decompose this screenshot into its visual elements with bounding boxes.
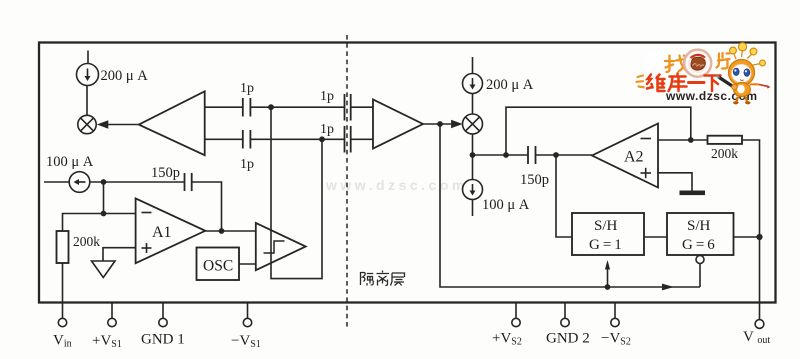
arrowhead right on control wire xyxy=(662,284,674,291)
svg-text:−VS1: −VS1 xyxy=(231,333,261,350)
node N12 junction dot xyxy=(605,284,611,290)
logo char zhao (find) xyxy=(665,56,687,73)
terminal +VS1 xyxy=(108,303,116,327)
op-amp A1 xyxy=(136,198,206,263)
svg-text:150p: 150p xyxy=(520,172,549,188)
node N11 junction dot xyxy=(756,234,762,240)
wire N4 to A1 inverting input xyxy=(104,213,136,215)
outer IC package border xyxy=(39,43,776,303)
S/H G=6 block xyxy=(667,213,734,255)
mascot legs xyxy=(737,97,748,102)
svg-text:+VS1: +VS1 xyxy=(92,333,122,350)
wire N4 left and down to resistor R1 xyxy=(63,214,104,232)
capacitor C4 1p isolation (lower) xyxy=(345,126,351,153)
logo magnifier ring xyxy=(684,50,711,77)
capacitor C5 150p xyxy=(185,173,192,191)
terminal -VS2 xyxy=(611,303,619,327)
feedback loop wire N1 down through comparator, right, up to N2 xyxy=(271,107,322,278)
op-amp right modulator receiver (points right) xyxy=(373,100,423,149)
logo speed dashes xyxy=(637,76,644,88)
mixer M1 (modulator multiplier) xyxy=(78,115,96,133)
wire R2 right and down right rail xyxy=(742,140,760,237)
svg-text:A1: A1 xyxy=(152,224,172,241)
OSC box xyxy=(197,248,240,281)
svg-text:V out: V out xyxy=(743,329,770,346)
wire bubble down to bottom control wire xyxy=(699,264,701,288)
arrow up into S/H G=1 xyxy=(605,260,610,287)
resistor R1 200k vertical xyxy=(57,231,69,263)
wire C2 to node N2 and to iso cap C4 xyxy=(250,138,344,140)
wire A2 inverting input to R2 xyxy=(658,139,708,141)
svg-text:OSC: OSC xyxy=(203,258,233,275)
current source I1 200uA (left) xyxy=(77,51,99,86)
logo white halo backdrop xyxy=(640,50,724,92)
dzsc watermark logo group xyxy=(637,43,771,105)
svg-text:200 μ A: 200 μ A xyxy=(486,77,534,93)
capacitor C2 1p (lower) xyxy=(243,130,251,149)
wire rail down to Vout xyxy=(759,237,761,320)
svg-text:1p: 1p xyxy=(240,157,254,172)
wire R1 to Vin terminal xyxy=(62,263,64,319)
node N5 junction dot xyxy=(219,228,225,234)
svg-text:Vin: Vin xyxy=(53,333,72,350)
wire I2 to node N3 to 150p cap C5 xyxy=(90,181,185,183)
svg-text:A2: A2 xyxy=(624,149,644,166)
mascot eyes xyxy=(733,68,739,76)
svg-text:1p: 1p xyxy=(320,122,334,137)
feedback rail N8 up over to A2 inverting input xyxy=(506,107,691,155)
current source I3 200uA (right) xyxy=(463,57,483,114)
node N9 junction dot xyxy=(553,152,559,158)
svg-text:−VS2: −VS2 xyxy=(601,331,631,348)
terminal +VS2 xyxy=(512,303,520,327)
mixer M2 (demodulator multiplier) xyxy=(463,114,483,134)
node N10 junction dot xyxy=(688,137,694,143)
svg-text:GND 2: GND 2 xyxy=(546,331,590,347)
mascot body xyxy=(734,83,751,97)
ground symbol GND1 (triangle) xyxy=(92,261,116,278)
wire C6 to node N9 to A2 apex xyxy=(536,154,593,156)
node N6 junction dot xyxy=(437,121,443,127)
logo magnifier fist xyxy=(691,57,705,70)
svg-text:GND 1: GND 1 xyxy=(141,332,185,348)
node N2 junction dot xyxy=(319,136,325,142)
logo char pian (chip) xyxy=(717,53,730,69)
wire A1 output to comparator xyxy=(205,230,256,232)
node N3 junction dot xyxy=(101,179,107,185)
wire A2 + input to ground bar xyxy=(658,173,692,191)
label 隔离层 (isolation layer) xyxy=(361,271,405,286)
wire upper input to C1 xyxy=(205,106,243,108)
terminal GND2 xyxy=(561,303,569,327)
svg-text:S/H: S/H xyxy=(594,218,618,234)
comparator with hysteresis xyxy=(256,223,306,270)
wire C3 to right amp xyxy=(351,106,373,108)
mascot mouth xyxy=(740,79,744,82)
terminal Vout xyxy=(755,320,764,329)
mascot pen xyxy=(719,77,735,88)
wire M2 down to node N7 xyxy=(472,134,474,155)
wire lower input to C2 xyxy=(205,138,243,140)
svg-text:150p: 150p xyxy=(151,165,180,181)
mascot head xyxy=(729,60,755,86)
capacitor C1 1p (upper) xyxy=(243,98,251,117)
wire C5 down to A1 output node N5 xyxy=(192,182,222,231)
svg-text:1p: 1p xyxy=(320,89,334,104)
svg-text:100 μ A: 100 μ A xyxy=(46,154,94,170)
op-amp A2 (points left) xyxy=(592,124,658,188)
node N4 junction dot xyxy=(101,211,107,217)
mascot face xyxy=(732,64,752,83)
svg-text:200k: 200k xyxy=(73,234,100,249)
terminal Vin xyxy=(58,318,66,326)
node N1 junction dot xyxy=(268,104,274,110)
capacitor C3 1p isolation (upper) xyxy=(345,94,351,121)
svg-text:G = 1: G = 1 xyxy=(589,237,622,253)
svg-text:1p: 1p xyxy=(240,81,254,96)
wire OSC to comparator xyxy=(239,263,256,265)
wire node N3 down to node N4 xyxy=(103,182,105,214)
wire S/H G=6 to output rail xyxy=(734,236,760,238)
current source I2 100uA (left) xyxy=(44,172,90,193)
wire I1 to mixer M1 xyxy=(86,86,88,116)
svg-text:S/H: S/H xyxy=(687,218,711,234)
capacitor C6 150p right xyxy=(528,146,536,164)
wire between S/H blocks xyxy=(644,236,667,238)
wire amp out to mixer M2 with right arrowhead xyxy=(423,120,463,128)
wire C4 to right amp xyxy=(351,138,373,140)
current source I4 100uA (right) xyxy=(463,155,483,216)
wire N6 down left rail to bottom control wire xyxy=(440,124,700,287)
logo red text wei ku yi xia xyxy=(647,74,721,92)
mascot right arm with red pointer xyxy=(750,83,760,85)
wire N7 to N8 to 150p cap C6 xyxy=(473,154,529,156)
node N8 junction dot xyxy=(503,152,509,158)
terminal -VS1 xyxy=(243,303,251,327)
S/H G=1 block xyxy=(572,213,644,255)
mascot antenna balls xyxy=(730,43,766,66)
ground symbol GND2 (bar) xyxy=(680,191,706,196)
op-amp left modulator driver (points left) xyxy=(139,91,205,155)
resistor R2 200k horizontal xyxy=(708,136,743,144)
svg-text:200k: 200k xyxy=(711,146,738,161)
svg-text:G = 6: G = 6 xyxy=(682,237,715,253)
isolation barrier dashed line xyxy=(346,35,348,330)
wire amp output to M1 with left arrowhead xyxy=(97,120,139,128)
inverter bubble under S/H G=6 xyxy=(696,256,704,264)
svg-text:200 μ A: 200 μ A xyxy=(101,68,149,84)
wire C1 to node N1 and on to iso cap C3 xyxy=(250,106,344,108)
wire N9 down and into S/H G=1 xyxy=(556,155,572,237)
wire A1 + input to ground xyxy=(103,248,136,261)
terminal GND1 xyxy=(159,303,167,327)
svg-text:+VS2: +VS2 xyxy=(492,331,522,348)
node N7 junction dot xyxy=(470,152,476,158)
svg-text:100 μ A: 100 μ A xyxy=(482,197,530,213)
